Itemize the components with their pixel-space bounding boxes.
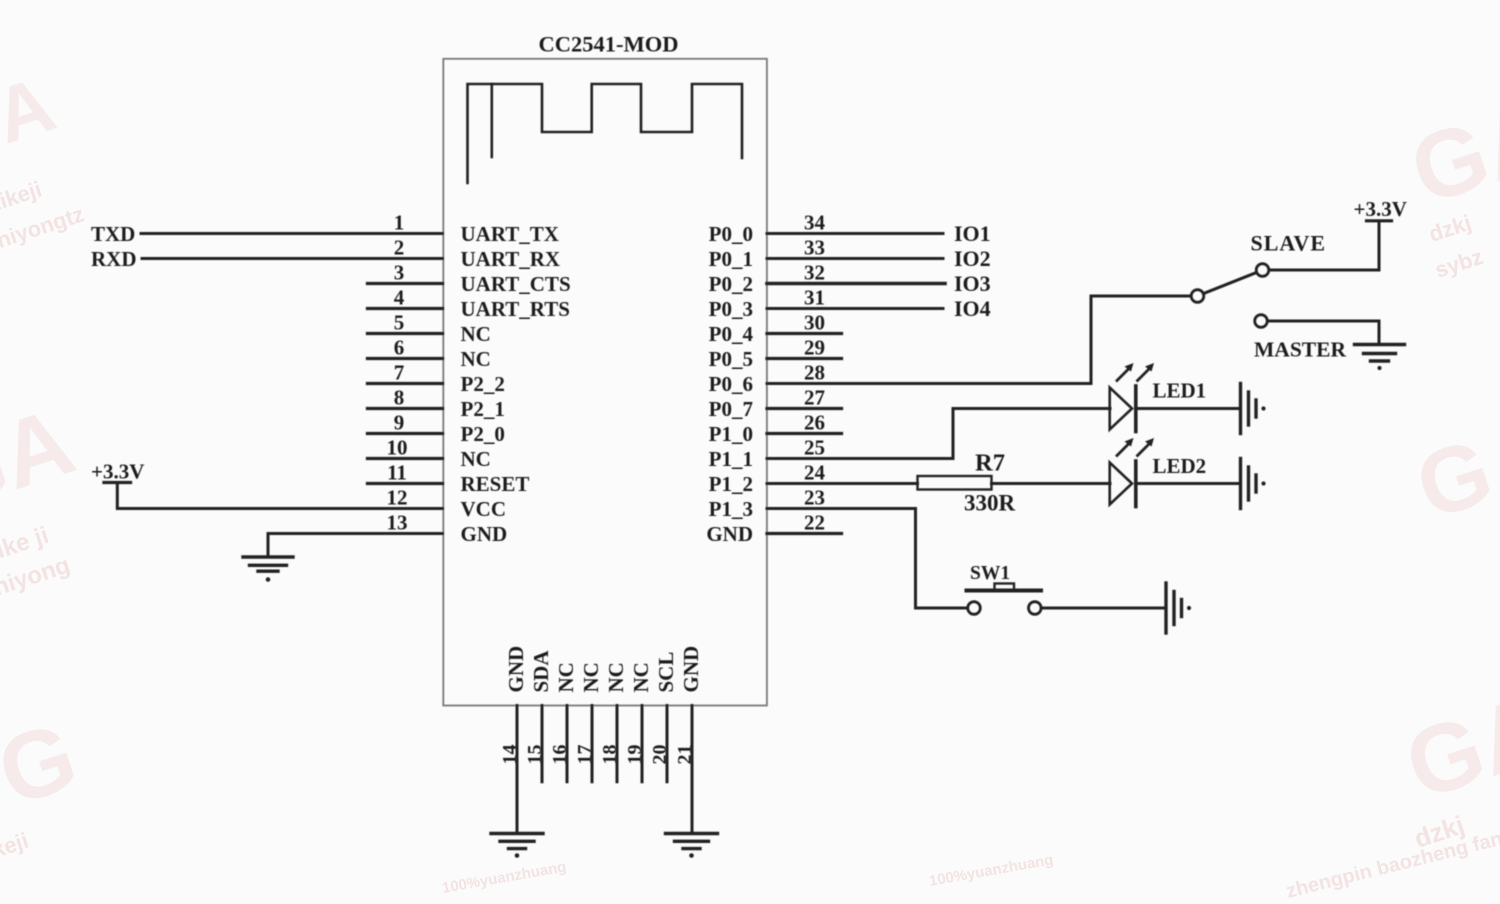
svg-text:SDA: SDA: [529, 650, 553, 693]
svg-text:17: 17: [574, 745, 596, 765]
svg-text:2: 2: [394, 236, 405, 260]
svg-text:UART_CTS: UART_CTS: [461, 272, 571, 296]
svg-text:15: 15: [524, 745, 546, 765]
svg-text:29: 29: [804, 336, 825, 360]
svg-text:P0_3: P0_3: [709, 297, 753, 321]
svg-text:+3.3V: +3.3V: [1354, 197, 1407, 221]
svg-text:12: 12: [387, 486, 408, 510]
svg-text:P0_2: P0_2: [709, 272, 753, 296]
svg-text:9: 9: [394, 411, 405, 435]
svg-text:6: 6: [394, 336, 405, 360]
svg-text:P1_3: P1_3: [709, 497, 753, 521]
svg-text:19: 19: [624, 745, 646, 765]
svg-text:NC: NC: [554, 662, 578, 692]
svg-text:SCL: SCL: [654, 652, 678, 693]
svg-text:P0_5: P0_5: [709, 347, 753, 371]
svg-text:UART_RTS: UART_RTS: [461, 297, 570, 321]
svg-text:P2_2: P2_2: [461, 372, 505, 396]
svg-text:GND: GND: [461, 522, 508, 546]
svg-text:LED1: LED1: [1153, 379, 1207, 403]
svg-text:LED2: LED2: [1153, 454, 1207, 478]
svg-text:GND: GND: [706, 522, 753, 546]
svg-text:UART_RX: UART_RX: [461, 247, 561, 271]
svg-text:27: 27: [804, 386, 825, 410]
svg-text:NC: NC: [579, 662, 603, 692]
svg-text:21: 21: [674, 745, 696, 765]
svg-text:P0_7: P0_7: [709, 397, 753, 421]
svg-text:8: 8: [394, 386, 405, 410]
svg-text:IO4: IO4: [954, 296, 991, 321]
svg-text:28: 28: [804, 361, 825, 385]
svg-text:P1_2: P1_2: [709, 472, 753, 496]
svg-text:P0_6: P0_6: [709, 372, 753, 396]
svg-text:P1_0: P1_0: [709, 422, 753, 446]
svg-text:IO3: IO3: [954, 271, 991, 296]
svg-text:13: 13: [387, 511, 408, 535]
svg-text:NC: NC: [629, 662, 653, 692]
svg-text:NC: NC: [461, 347, 491, 371]
svg-text:24: 24: [804, 461, 826, 485]
svg-text:11: 11: [387, 461, 407, 485]
svg-text:NC: NC: [461, 447, 491, 471]
svg-text:UART_TX: UART_TX: [461, 222, 559, 246]
svg-text:NC: NC: [461, 322, 491, 346]
svg-text:P0_0: P0_0: [709, 222, 753, 246]
svg-text:P2_0: P2_0: [461, 422, 505, 446]
svg-text:7: 7: [394, 361, 405, 385]
svg-text:18: 18: [599, 745, 621, 765]
svg-text:33: 33: [804, 236, 825, 260]
svg-text:MASTER: MASTER: [1254, 338, 1346, 362]
svg-text:SW1: SW1: [970, 563, 1010, 584]
svg-text:+3.3V: +3.3V: [91, 460, 144, 484]
svg-text:3: 3: [394, 261, 405, 285]
svg-text:32: 32: [804, 261, 825, 285]
svg-text:TXD: TXD: [91, 222, 135, 246]
svg-text:RESET: RESET: [461, 472, 530, 496]
svg-text:25: 25: [804, 436, 825, 460]
svg-text:5: 5: [394, 311, 405, 335]
svg-text:P2_1: P2_1: [461, 397, 505, 421]
svg-text:GND: GND: [504, 646, 528, 693]
svg-text:330R: 330R: [964, 491, 1016, 516]
svg-text:P1_1: P1_1: [709, 447, 753, 471]
svg-text:34: 34: [804, 211, 826, 235]
svg-text:10: 10: [387, 436, 408, 460]
svg-text:IO2: IO2: [954, 246, 991, 271]
svg-text:30: 30: [804, 311, 825, 335]
svg-text:R7: R7: [975, 450, 1005, 477]
svg-text:IO1: IO1: [954, 221, 991, 246]
svg-text:RXD: RXD: [91, 247, 137, 271]
svg-text:31: 31: [804, 286, 825, 310]
svg-text:CC2541-MOD: CC2541-MOD: [539, 32, 679, 57]
svg-text:26: 26: [804, 411, 825, 435]
svg-text:1: 1: [394, 211, 405, 235]
svg-text:SLAVE: SLAVE: [1251, 231, 1327, 256]
svg-text:GND: GND: [679, 646, 703, 693]
svg-text:P0_1: P0_1: [709, 247, 753, 271]
svg-text:NC: NC: [604, 662, 628, 692]
svg-text:23: 23: [804, 486, 825, 510]
svg-text:4: 4: [394, 286, 405, 310]
svg-text:14: 14: [499, 745, 521, 765]
svg-text:20: 20: [649, 745, 671, 765]
svg-text:P0_4: P0_4: [709, 322, 754, 346]
svg-text:VCC: VCC: [461, 497, 507, 521]
svg-text:16: 16: [549, 745, 571, 765]
svg-text:22: 22: [804, 511, 825, 535]
